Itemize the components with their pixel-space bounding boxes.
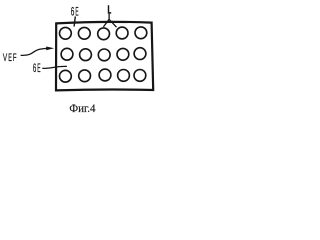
leader stem from L xyxy=(108,14,110,20)
svg-text:Фиг.4: Фиг.4 xyxy=(69,101,95,115)
circle row3 col5 xyxy=(134,70,146,82)
leader line from 6E top down between circles 1-2 xyxy=(74,16,75,26)
circle row1 col3 xyxy=(98,28,110,40)
leader line from lower 6E to circle row3 col1 xyxy=(42,66,67,68)
circle row1 col1 xyxy=(60,27,72,39)
circle row3 col2 xyxy=(79,70,91,82)
circle row2 col2 xyxy=(80,49,92,61)
svg-text:F: F xyxy=(13,52,17,64)
circle row1 col4 xyxy=(116,27,128,39)
circle row3 col3 xyxy=(99,69,111,81)
label L top (drawn as path) xyxy=(109,5,112,13)
circle row3 col1 xyxy=(60,70,72,82)
circle row2 col3 xyxy=(98,49,110,61)
circle row1 col5 xyxy=(135,27,147,39)
leader wavy line from VEF xyxy=(21,48,47,55)
svg-text:6: 6 xyxy=(33,62,36,75)
circle row3 col4 xyxy=(118,70,130,82)
leader leg right to circle row1 col4 xyxy=(109,19,116,27)
circle row2 col1 xyxy=(61,48,73,60)
svg-text:V: V xyxy=(3,52,8,64)
svg-text:E: E xyxy=(8,52,12,64)
circle row2 col4 xyxy=(117,48,129,60)
main rectangle (cable cross-section body) xyxy=(56,22,153,91)
svg-text:6: 6 xyxy=(71,6,75,19)
leader leg left to circle row1 col3 xyxy=(103,19,109,27)
arrowhead pointing at left wall xyxy=(46,47,54,51)
svg-text:E: E xyxy=(37,62,40,75)
circle row2 col5 xyxy=(134,48,146,60)
circle row1 col2 xyxy=(78,27,90,39)
